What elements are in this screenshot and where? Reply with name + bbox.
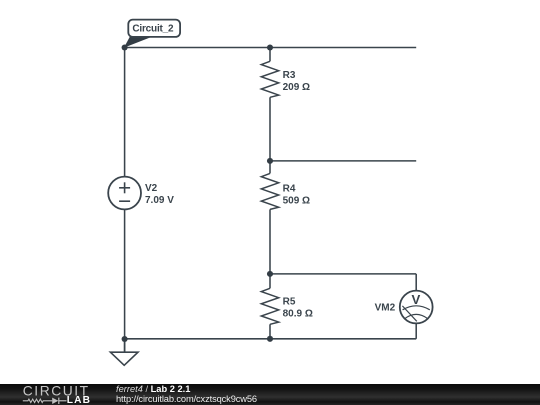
voltage source V2 xyxy=(108,177,174,210)
svg-text:209 Ω: 209 Ω xyxy=(283,82,310,93)
svg-text:Circuit_2: Circuit_2 xyxy=(132,24,174,35)
resistor R3 xyxy=(261,61,310,97)
CircuitLab logo xyxy=(23,383,91,405)
node junction dot top of R3 xyxy=(267,44,273,50)
svg-text:LAB: LAB xyxy=(67,395,91,405)
footer bar xyxy=(0,384,540,405)
junction dot bottom of R5 xyxy=(267,336,273,342)
svg-text:80.9 Ω: 80.9 Ω xyxy=(283,309,313,320)
resistor R5 xyxy=(261,288,313,324)
svg-text:7.09 V: 7.09 V xyxy=(145,195,174,206)
wire: bottom horizontal net xyxy=(125,338,417,340)
wire: VM2 top lead xyxy=(415,274,417,291)
svg-text:V2: V2 xyxy=(145,183,158,194)
svg-text:ferret4 / Lab 2 2.1: ferret4 / Lab 2 2.1 xyxy=(116,384,190,394)
svg-text:R4: R4 xyxy=(283,183,296,194)
resistor R4 xyxy=(261,173,310,209)
svg-text:R3: R3 xyxy=(283,70,296,81)
wire: R4 top lead xyxy=(269,161,271,174)
wire: top horizontal net from node A to open stub xyxy=(125,47,417,49)
wire: R5 top lead xyxy=(269,274,271,288)
wire: node C horizontal to VM2 top xyxy=(270,273,416,275)
wire: R3 top lead xyxy=(269,48,271,62)
svg-text:509 Ω: 509 Ω xyxy=(283,196,310,207)
node C junction dot xyxy=(267,271,273,277)
wire: R4 bottom lead to node C xyxy=(269,209,271,274)
node A junction dot (top left) xyxy=(122,44,128,50)
voltmeter VM2 xyxy=(375,291,433,324)
wire: node B horizontal stub xyxy=(270,160,416,162)
svg-text:R5: R5 xyxy=(283,296,296,307)
ground xyxy=(110,339,138,365)
wire: R5 bottom lead xyxy=(269,324,271,339)
svg-text:http://circuitlab.com/cxztsqck: http://circuitlab.com/cxztsqck9cw56 xyxy=(116,394,257,404)
ground node junction dot xyxy=(122,336,128,342)
svg-text:VM2: VM2 xyxy=(375,303,396,314)
node B junction dot xyxy=(267,158,273,164)
node label callout Circuit_2 xyxy=(124,20,180,48)
wire: left branch from node A down to V2 top xyxy=(124,48,126,177)
wire: R3 bottom lead to node B xyxy=(269,97,271,161)
wire: V2 bottom down to ground node xyxy=(124,209,126,352)
wire: VM2 bottom lead xyxy=(415,323,417,338)
svg-text:V: V xyxy=(412,292,421,307)
